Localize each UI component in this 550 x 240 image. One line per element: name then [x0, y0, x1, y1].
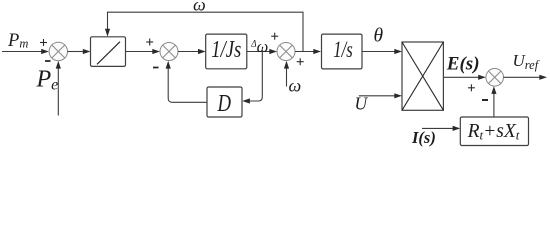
svg-text:Rt+sXt: Rt+sXt — [467, 121, 520, 143]
wire divider to S2 — [126, 49, 161, 54]
plus sign at S3 (right) — [297, 58, 304, 65]
plus sign at summing junction S2 — [146, 39, 153, 46]
plus sign at S4 — [468, 84, 475, 91]
svg-text:E(s): E(s) — [446, 54, 480, 75]
wire S2 to block 1/Js — [178, 49, 206, 54]
minus sign at S4 — [482, 99, 488, 101]
summing junction S1 — [49, 42, 67, 60]
plus sign at S3 (top) — [271, 33, 278, 40]
svg-text:ω: ω — [193, 0, 206, 15]
wire P_m input — [2, 49, 49, 54]
wire delta-omega tap to D block — [242, 52, 262, 104]
block Rt+sXt — [460, 117, 528, 146]
wire Rt block to S4 — [491, 86, 496, 117]
svg-text:θ: θ — [374, 25, 384, 46]
summing junction S3 — [277, 43, 295, 61]
wire 1/Js to S3 — [247, 49, 277, 54]
multiplier block X — [402, 42, 443, 110]
wire S4 output U_ref — [504, 75, 548, 80]
svg-text:I(s): I(s) — [411, 128, 436, 147]
svg-text:ω: ω — [257, 37, 269, 56]
wire U into multiplier — [359, 93, 402, 98]
wire S3 to block 1/s — [295, 49, 321, 54]
minus sign at summing junction S1 — [45, 60, 51, 62]
block 1/Js — [206, 34, 247, 69]
minus sign at summing junction S2 — [153, 67, 159, 69]
svg-text:ω: ω — [289, 76, 302, 96]
block 1/s — [322, 34, 363, 69]
summing junction S2 — [160, 43, 178, 61]
wire P_e into S1 — [56, 61, 61, 116]
wire D block to S2 (feedback) — [166, 61, 207, 103]
wire S1 to divider block — [68, 49, 91, 54]
summing junction S4 — [486, 69, 504, 87]
wire omega feedback (top) from S3 output to divider top — [105, 12, 303, 51]
block D — [207, 87, 242, 117]
svg-text:1/s: 1/s — [333, 37, 353, 63]
wire 1/s to multiplier block — [362, 49, 402, 54]
wire multiplier to S4 — [443, 75, 486, 80]
svg-text:U: U — [355, 94, 369, 114]
wire omega into S3 from below — [284, 61, 289, 87]
plus sign at summing junction S1 — [40, 39, 47, 46]
svg-text:1/Js: 1/Js — [211, 37, 241, 63]
divider block (slope symbol) — [91, 37, 126, 67]
wire I(s) into Rt block — [422, 126, 460, 131]
svg-text:D: D — [217, 90, 231, 117]
